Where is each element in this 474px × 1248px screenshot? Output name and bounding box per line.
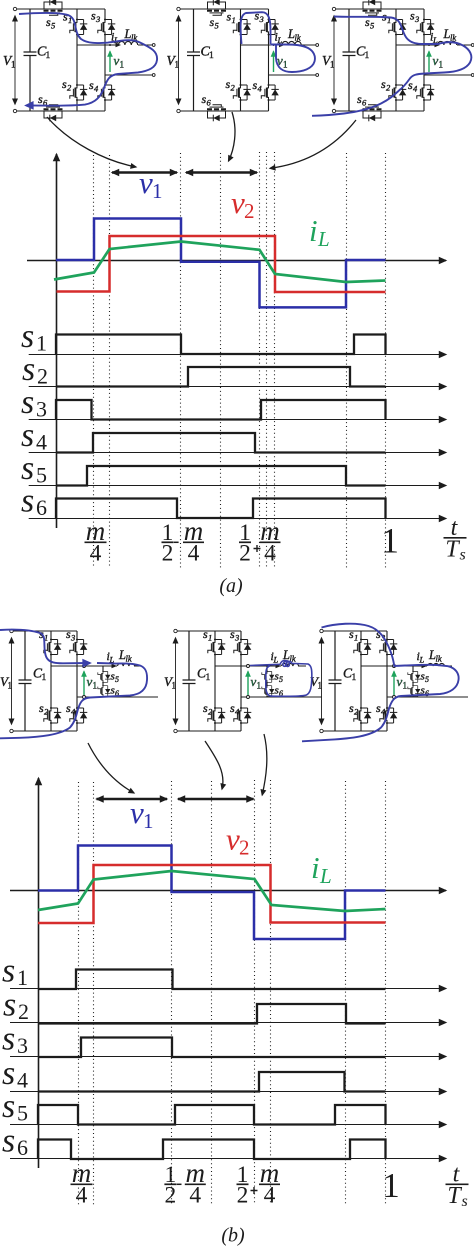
interval arrow second span xyxy=(178,798,254,800)
s6 trace xyxy=(56,499,386,519)
v2 wave (red) xyxy=(57,236,386,292)
vertical axis xyxy=(56,154,58,528)
s4 trace xyxy=(56,433,386,453)
svg-text:4: 4 xyxy=(17,1068,28,1093)
s5 trace xyxy=(56,466,386,486)
svg-text:1: 1 xyxy=(152,179,163,203)
s3 trace xyxy=(38,1038,386,1058)
pointer arrow from circuit 2 xyxy=(229,112,235,161)
interval arrow v1 span xyxy=(112,171,177,173)
s4 trace xyxy=(38,1072,386,1092)
v1 wave (blue) xyxy=(56,219,386,308)
svg-text:L: L xyxy=(317,227,330,251)
v1 wave (blue) xyxy=(38,846,386,940)
axis tick labels xyxy=(85,515,467,567)
current path b2 xyxy=(250,660,312,696)
time axis xyxy=(27,260,446,262)
s5 trace xyxy=(38,1105,386,1125)
circuit b1 xyxy=(0,627,158,733)
svg-text:3: 3 xyxy=(36,397,47,422)
current path a1 xyxy=(19,13,157,106)
svg-text:i: i xyxy=(311,850,320,885)
dotted grid lines xyxy=(94,152,386,568)
svg-text:6: 6 xyxy=(17,1135,28,1160)
s row axes xyxy=(29,355,446,519)
svg-text:4: 4 xyxy=(76,1183,88,1209)
svg-text:2: 2 xyxy=(165,1183,177,1209)
svg-text:5: 5 xyxy=(17,1101,28,1126)
svg-text:4: 4 xyxy=(36,430,47,455)
svg-text:T: T xyxy=(445,537,460,563)
svg-text:4: 4 xyxy=(188,541,200,567)
circuit a1 xyxy=(3,0,155,121)
v2 wave (red) xyxy=(38,865,386,923)
svg-text:s: s xyxy=(21,384,34,421)
s6 trace xyxy=(38,1140,386,1160)
circuit b3 xyxy=(310,627,468,733)
s3 trace xyxy=(56,400,386,420)
s1 trace xyxy=(38,970,386,990)
s2 trace xyxy=(38,1004,386,1024)
svg-text:1: 1 xyxy=(36,331,47,356)
circuit a2 xyxy=(167,0,319,121)
svg-text:s: s xyxy=(2,1055,15,1092)
svg-text:v: v xyxy=(226,822,240,857)
svg-text:(a): (a) xyxy=(219,575,243,597)
svg-text:v: v xyxy=(231,185,245,220)
svg-text:L: L xyxy=(319,864,332,888)
svg-text:s: s xyxy=(21,450,34,487)
current path a2 xyxy=(241,12,315,72)
svg-text:s: s xyxy=(460,547,466,564)
svg-text:s: s xyxy=(2,953,15,990)
svg-text:s: s xyxy=(21,318,34,355)
interval arrow second span xyxy=(186,171,257,173)
svg-text:s: s xyxy=(3,987,16,1024)
svg-text:2: 2 xyxy=(237,1183,249,1209)
svg-text:1: 1 xyxy=(143,809,154,833)
svg-text:4: 4 xyxy=(189,1183,201,1209)
svg-text:2: 2 xyxy=(37,364,48,389)
pointer arrow from circuit 1 xyxy=(47,117,136,167)
svg-text:(b): (b) xyxy=(221,1225,245,1247)
axis tick labels xyxy=(71,1158,469,1210)
svg-text:4: 4 xyxy=(264,541,276,567)
svg-text:1: 1 xyxy=(17,965,28,990)
svg-text:s: s xyxy=(21,483,34,520)
svg-text:i: i xyxy=(309,213,318,248)
svg-text:1: 1 xyxy=(382,1166,400,1205)
svg-text:4: 4 xyxy=(90,541,102,567)
current path b3 xyxy=(302,624,459,742)
s2 trace xyxy=(56,367,386,387)
svg-text:v: v xyxy=(130,795,144,830)
pointer arrow from circuit 1 xyxy=(88,743,134,793)
svg-text:1: 1 xyxy=(381,521,399,561)
pointer arrow from circuit 3 xyxy=(270,120,356,168)
svg-text:3: 3 xyxy=(17,1033,28,1058)
svg-text:s: s xyxy=(2,1123,15,1160)
pointer arrow from circuit 3 xyxy=(262,734,267,795)
svg-text:s: s xyxy=(2,1021,15,1058)
svg-text:s: s xyxy=(21,417,34,454)
time axis xyxy=(10,890,446,892)
current path a3 xyxy=(312,17,471,116)
iL wave (green) xyxy=(38,871,386,911)
pointer arrow from circuit 2 xyxy=(205,741,223,789)
svg-text:T: T xyxy=(447,1183,462,1209)
svg-text:4: 4 xyxy=(264,1183,276,1209)
svg-text:2: 2 xyxy=(239,836,250,860)
circuit b2 xyxy=(164,627,322,733)
s1 trace xyxy=(56,335,386,355)
svg-text:s: s xyxy=(2,1088,15,1125)
s labels xyxy=(2,953,16,1160)
current path b1 xyxy=(0,630,90,664)
svg-text:2: 2 xyxy=(244,199,255,223)
svg-text:v: v xyxy=(139,165,153,200)
svg-text:2: 2 xyxy=(18,999,29,1024)
s labels xyxy=(21,318,35,520)
iL wave (green) xyxy=(54,242,386,283)
s row axes xyxy=(10,989,446,1159)
interval arrow v1 span xyxy=(97,798,168,800)
vertical axis xyxy=(38,778,40,1168)
svg-text:s: s xyxy=(22,351,35,388)
circuit a3 xyxy=(322,0,474,121)
svg-text:6: 6 xyxy=(36,495,47,520)
dotted grid lines xyxy=(79,780,386,1205)
svg-text:2: 2 xyxy=(162,541,174,567)
svg-text:5: 5 xyxy=(36,463,47,488)
svg-text:2: 2 xyxy=(239,541,251,567)
svg-text:s: s xyxy=(462,1193,468,1210)
